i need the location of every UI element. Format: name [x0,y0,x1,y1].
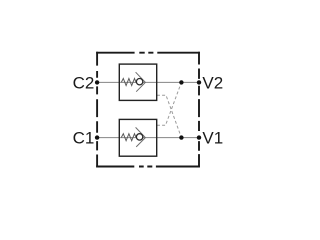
svg-text:V2: V2 [202,74,223,93]
svg-text:V1: V1 [202,128,223,147]
svg-text:C1: C1 [73,128,95,147]
svg-text:C2: C2 [73,74,95,93]
